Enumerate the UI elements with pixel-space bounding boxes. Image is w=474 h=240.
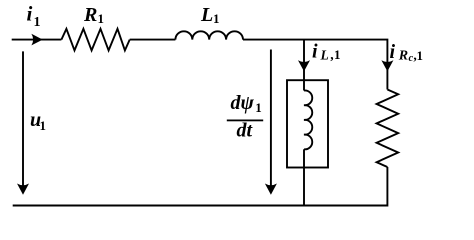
svg-text:1: 1: [417, 48, 424, 63]
inductor Lm coil in box: [304, 90, 312, 149]
svg-text:dt: dt: [237, 120, 254, 142]
resistor Rc vertical: [377, 90, 399, 168]
wire middle branch lower (coil to bottom wire): [303, 149, 305, 205]
svg-text:1: 1: [334, 47, 341, 62]
fraction bar: [227, 120, 263, 122]
svg-text:1: 1: [40, 118, 47, 133]
wire from L1 to top-right corner and down right branch: [243, 40, 387, 90]
svg-text:L: L: [320, 47, 329, 62]
box around magnetizing inductor: [287, 80, 328, 167]
wire middle branch upper (junction to box): [303, 40, 305, 91]
svg-text:1: 1: [213, 11, 220, 26]
inductor L1: [175, 31, 243, 39]
wire between R1 and L1: [130, 39, 176, 41]
arrowhead current i1: [31, 34, 42, 46]
svg-text:1: 1: [34, 15, 41, 30]
arrowhead voltage u1: [17, 184, 29, 195]
resistor R1: [61, 29, 129, 51]
voltage arrow dpsi1/dt line: [270, 50, 272, 189]
voltage arrow u1 line: [22, 51, 24, 188]
wire top-left from source to resistor R1: [12, 39, 62, 41]
svg-text:R: R: [83, 4, 97, 26]
arrowhead current iL1: [298, 60, 310, 71]
svg-text:R: R: [398, 49, 408, 64]
svg-text:1: 1: [98, 11, 105, 26]
svg-text:i: i: [390, 41, 396, 63]
svg-text:i: i: [312, 41, 318, 63]
svg-text:L: L: [200, 4, 213, 26]
arrowhead voltage dpsi1/dt: [265, 184, 277, 195]
wire right branch lower stub and bottom wire: [13, 167, 388, 206]
svg-text:1: 1: [255, 100, 261, 115]
svg-text:dψ: dψ: [231, 92, 255, 114]
svg-text:i: i: [27, 2, 33, 26]
arrowhead current iRc1: [381, 60, 393, 71]
